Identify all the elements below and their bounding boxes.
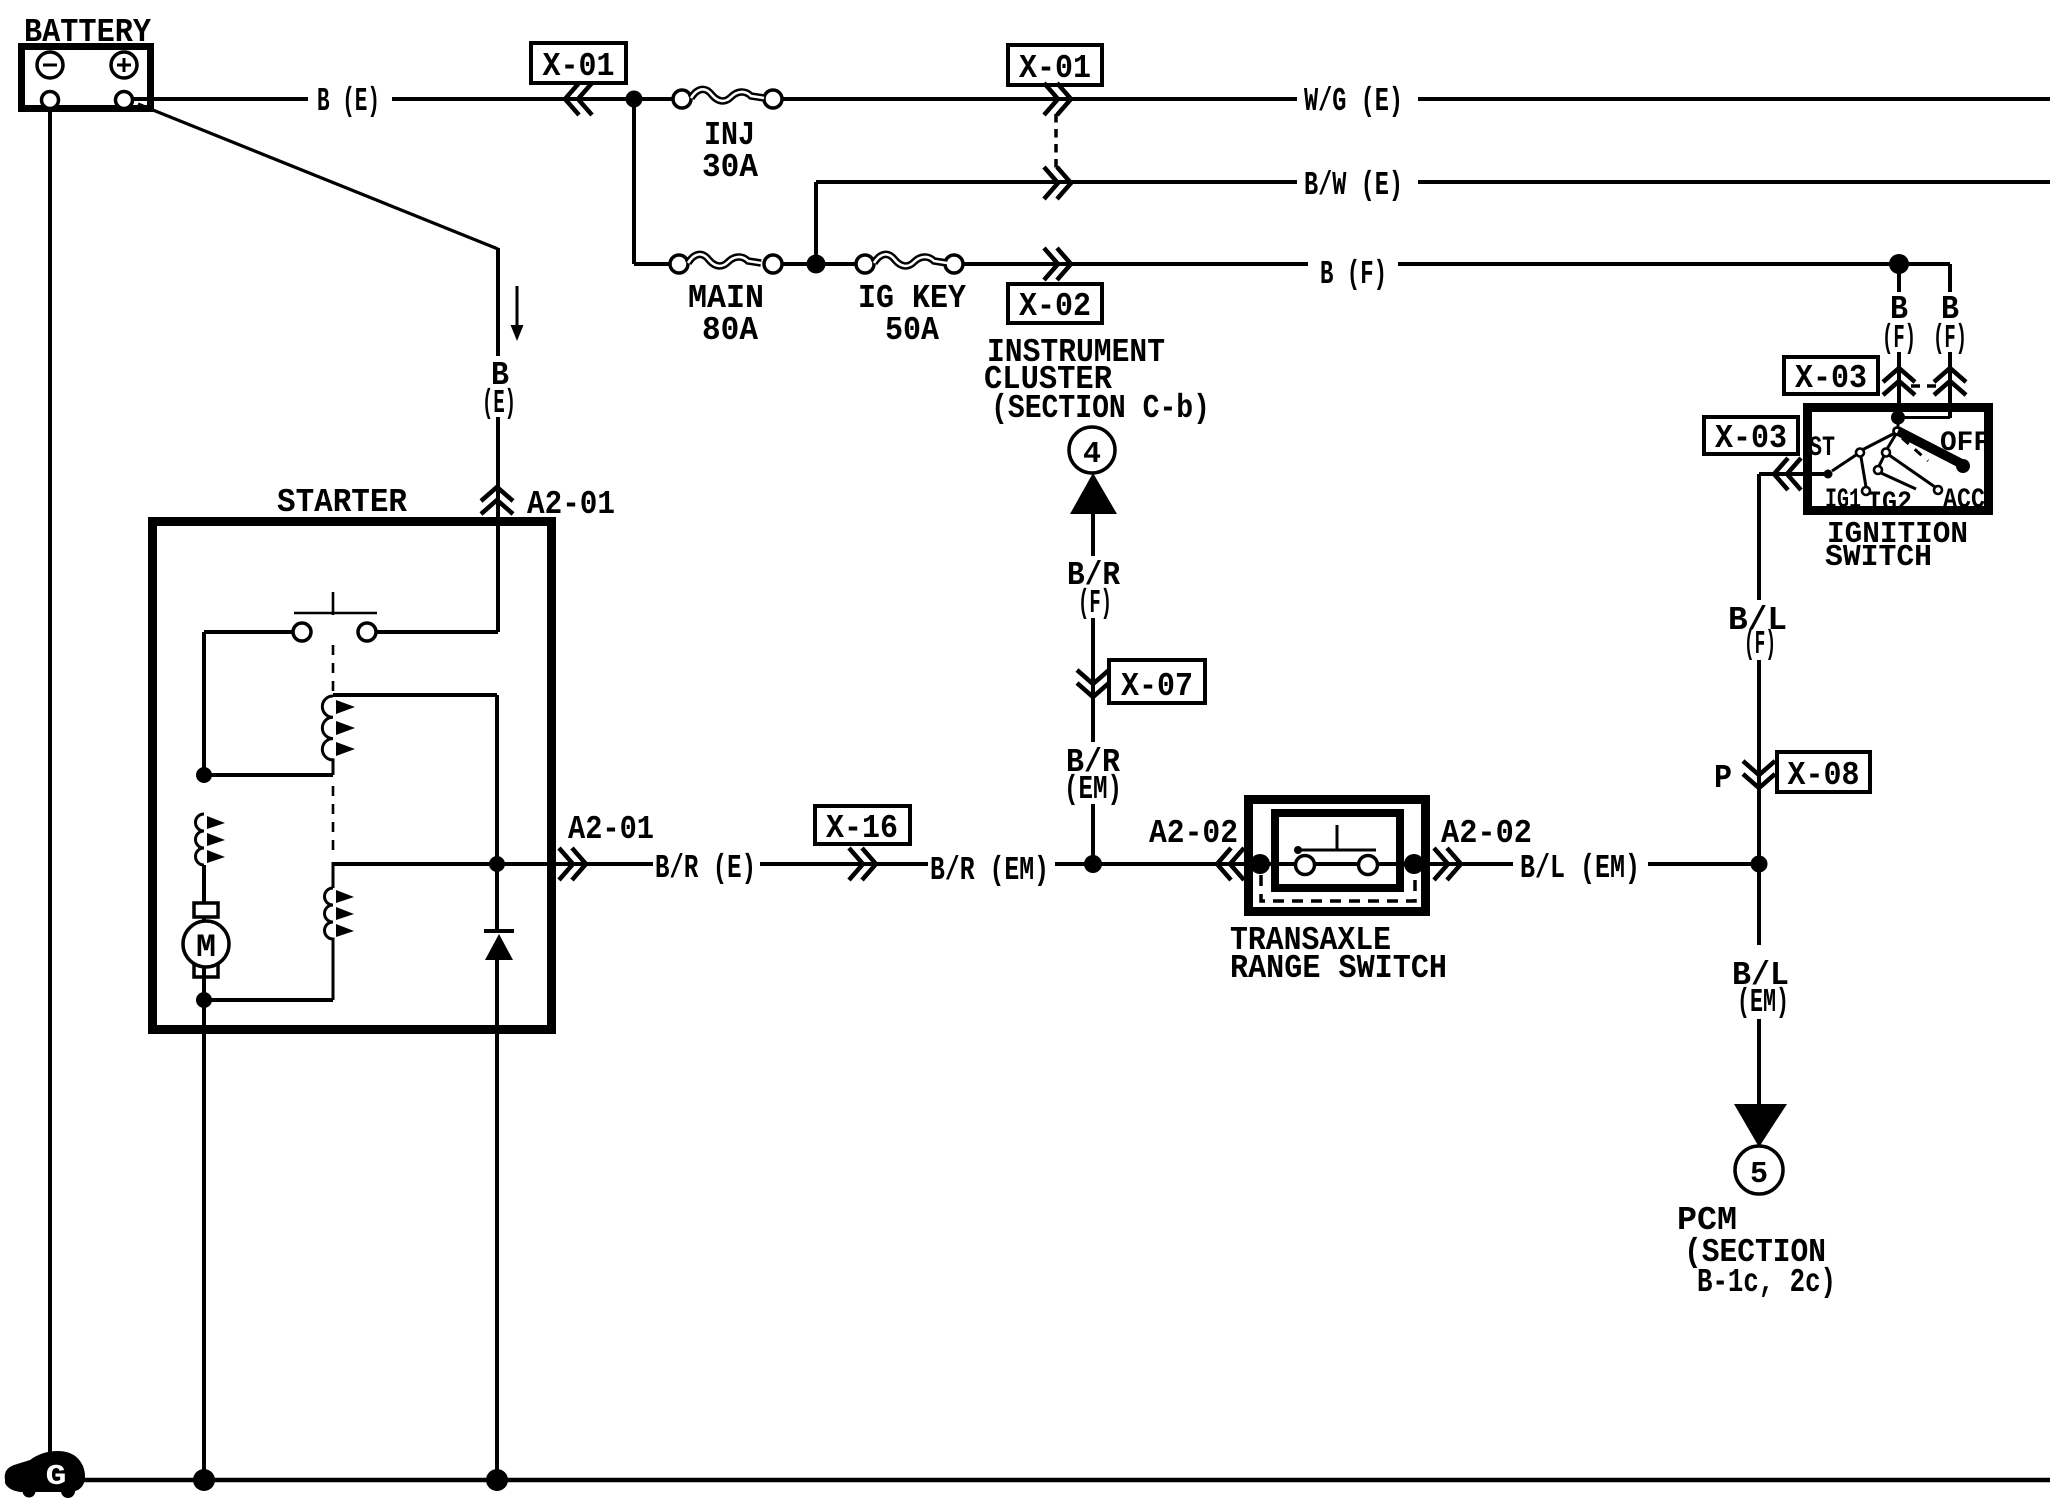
- svg-text:(F): (F): [1744, 626, 1776, 663]
- ignition switch internals: [1809, 411, 1990, 520]
- svg-text:B/W (E): B/W (E): [1304, 167, 1403, 204]
- transaxle switch contacts: [1250, 825, 1424, 875]
- node ground junction (diode): [486, 1469, 508, 1491]
- svg-text:SWITCH: SWITCH: [1825, 540, 1932, 575]
- node cluster junction: [1084, 855, 1102, 873]
- node pull-in junction: [196, 767, 212, 783]
- svg-text:IG1: IG1: [1825, 485, 1861, 516]
- svg-text:P: P: [1714, 760, 1732, 797]
- instrument cluster label: [984, 334, 1210, 427]
- wire B (F) junction to ignition: [1889, 254, 1909, 274]
- wire to starter: [496, 417, 500, 521]
- solenoid plunger dashed link: [332, 645, 335, 694]
- arrow to instrument cluster: [1070, 473, 1117, 514]
- svg-text:ST: ST: [1809, 433, 1835, 464]
- svg-text:B (F): B (F): [1320, 256, 1387, 293]
- node ground junction (motor): [193, 1469, 215, 1491]
- svg-text:(F): (F): [1933, 320, 1967, 357]
- svg-text:A2-02: A2-02: [1441, 815, 1532, 852]
- svg-text:X-03: X-03: [1795, 360, 1867, 397]
- svg-text:5: 5: [1750, 1157, 1768, 1192]
- wire diode to ground: [495, 864, 499, 931]
- svg-text:A2-02: A2-02: [1149, 815, 1238, 852]
- svg-text:X-08: X-08: [1788, 757, 1860, 794]
- wire B/L (EM): [1423, 862, 1513, 866]
- svg-text:X-02: X-02: [1019, 288, 1091, 325]
- wire ST to B/L (F): [1759, 472, 1828, 476]
- svg-text:B/R (E): B/R (E): [655, 850, 756, 887]
- motor M: [183, 903, 229, 977]
- svg-text:A2-01: A2-01: [568, 811, 654, 848]
- wire B/R (E): [556, 862, 653, 866]
- wire B (E) from battery positive: [133, 97, 308, 101]
- wire battery negative to ground: [48, 108, 52, 1462]
- node diode junction: [489, 856, 505, 872]
- svg-text:X-01: X-01: [1019, 50, 1091, 87]
- starter solenoid contact: [293, 592, 377, 641]
- wire X-08 to junction: [1757, 788, 1761, 864]
- wire B (F): [963, 262, 1308, 266]
- svg-text:(E): (E): [482, 385, 516, 422]
- ground bus: [30, 1478, 2050, 1483]
- wire motor to ground: [202, 1034, 206, 1480]
- node MAIN/IG KEY junction: [782, 262, 856, 266]
- connector X-02: [1008, 248, 1102, 325]
- wire A2-01 output inside starter: [333, 862, 556, 866]
- connector X-03 (top): [1784, 357, 1966, 397]
- svg-text:B-1c, 2c): B-1c, 2c): [1697, 1264, 1836, 1301]
- connector X-01 (battery side): [531, 43, 626, 83]
- svg-text:80A: 80A: [702, 312, 758, 349]
- node 5 (to PCM): [1735, 1146, 1783, 1194]
- node PCM junction: [1751, 856, 1768, 873]
- transaxle range switch box: [1249, 800, 1426, 912]
- node 4 (to instrument cluster): [1069, 427, 1115, 473]
- svg-text:(SECTION C-b): (SECTION C-b): [991, 390, 1210, 427]
- svg-text:50A: 50A: [885, 312, 939, 349]
- svg-text:ACC: ACC: [1943, 485, 1985, 516]
- hold-in coil: [325, 862, 355, 1000]
- solenoid plunger dashed link lower: [332, 786, 335, 858]
- diode: [484, 931, 514, 960]
- connector X-08: [1714, 752, 1870, 797]
- svg-text:OFF: OFF: [1940, 428, 1990, 459]
- svg-text:RANGE SWITCH: RANGE SWITCH: [1230, 950, 1447, 987]
- svg-text:X-03: X-03: [1715, 420, 1787, 457]
- connector X-07: [1077, 660, 1205, 705]
- svg-text:B (E): B (E): [317, 83, 380, 120]
- node motor lower junction: [196, 992, 212, 1008]
- connector X-16: [815, 806, 910, 880]
- connector A2-02 out: [1434, 848, 1461, 880]
- connector A2-01 output: [559, 848, 586, 880]
- wire pull-in coil top to diode branch: [333, 693, 497, 697]
- connector X-03 (left): [1704, 417, 1801, 490]
- fuse IG KEY 50A: [856, 254, 966, 349]
- arrow down (current flow): [511, 286, 524, 341]
- svg-text:30A: 30A: [702, 149, 758, 186]
- svg-text:X-07: X-07: [1121, 668, 1193, 705]
- svg-text:(F): (F): [1078, 585, 1112, 622]
- ignition switch box: [1808, 408, 1989, 511]
- PCM label: [1677, 1202, 1836, 1301]
- svg-text:(EM): (EM): [1737, 984, 1789, 1021]
- battery: [22, 14, 152, 109]
- connector A2-01 (starter): [481, 487, 513, 514]
- field coil: [196, 814, 226, 865]
- svg-text:(EM): (EM): [1064, 771, 1122, 808]
- wire incoming to right contact: [376, 630, 498, 634]
- connector A2-02 into transaxle: [1217, 848, 1244, 880]
- node junction top: [626, 91, 643, 108]
- svg-text:(F): (F): [1882, 320, 1916, 357]
- wire battery to X-01: [392, 97, 673, 101]
- wire junction down to MAIN fuse: [632, 99, 636, 264]
- svg-text:M: M: [196, 929, 216, 966]
- svg-text:4: 4: [1083, 437, 1101, 472]
- svg-text:B/L (EM): B/L (EM): [1520, 850, 1640, 887]
- wire B/R (EM) vertical: [1064, 694, 1122, 864]
- wire B/L (EM) to PCM: [1757, 864, 1761, 945]
- svg-text:X-16: X-16: [826, 810, 898, 847]
- svg-text:B/R (EM): B/R (EM): [930, 852, 1049, 889]
- connector X-01 (column): [1008, 45, 1102, 199]
- fuse MAIN 80A: [634, 254, 782, 349]
- wire field coil to motor: [202, 865, 206, 921]
- wire B/R (F): [1067, 514, 1120, 694]
- wire W/G (E): [782, 97, 1297, 101]
- svg-text:STARTER: STARTER: [277, 484, 407, 521]
- wire contact to left branch: [204, 630, 293, 634]
- svg-text:G: G: [46, 1460, 67, 1493]
- pull-in coil: [322, 696, 355, 775]
- arrow to PCM: [1734, 1104, 1787, 1147]
- wire motor to lower junction: [202, 967, 206, 1034]
- svg-text:W/G (E): W/G (E): [1304, 83, 1403, 120]
- ground symbol G: [5, 1451, 85, 1498]
- wire B/W (E): [816, 167, 2050, 264]
- svg-text:IG2: IG2: [1867, 488, 1912, 519]
- wire battery to starter diagonal: [138, 104, 498, 249]
- fuse INJ 30A: [673, 89, 782, 186]
- svg-text:X-01: X-01: [543, 48, 615, 85]
